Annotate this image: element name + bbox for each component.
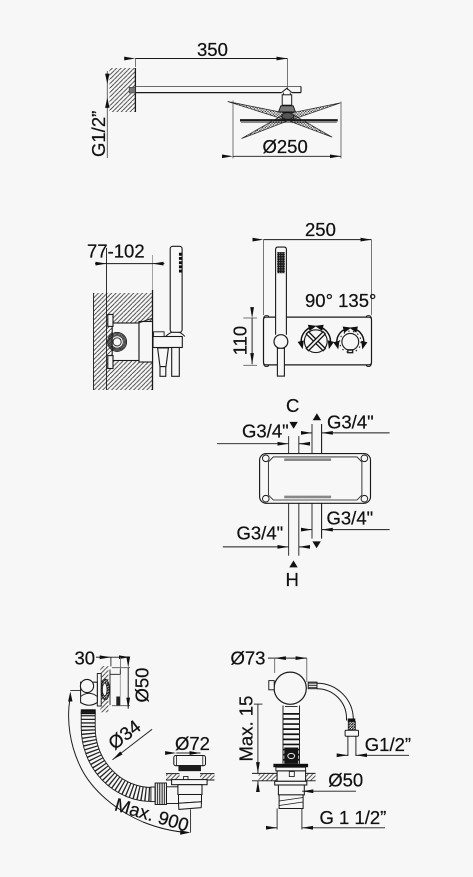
svg-text:110: 110: [230, 326, 251, 356]
svg-text:Ø250: Ø250: [263, 136, 308, 157]
svg-text:Ø50: Ø50: [328, 770, 363, 791]
svg-text:G 1 1/2”: G 1 1/2”: [320, 807, 387, 828]
svg-text:Max. 15: Max. 15: [236, 696, 257, 762]
svg-text:C: C: [286, 395, 299, 416]
svg-text:H: H: [286, 569, 299, 590]
svg-text:G3/4": G3/4": [237, 523, 284, 544]
svg-text:350: 350: [197, 39, 228, 60]
svg-text:G3/4": G3/4": [327, 508, 374, 529]
svg-text:Ø50: Ø50: [131, 668, 152, 703]
svg-text:G1/2”: G1/2”: [365, 734, 411, 755]
svg-text:250: 250: [305, 219, 336, 240]
svg-text:90° 135°: 90° 135°: [305, 290, 376, 311]
svg-text:G3/4": G3/4": [327, 412, 374, 433]
svg-text:G1/2”: G1/2”: [88, 111, 109, 157]
svg-text:Ø72: Ø72: [175, 733, 210, 754]
svg-text:G3/4": G3/4": [242, 421, 289, 442]
svg-text:Ø73: Ø73: [231, 648, 266, 669]
svg-text:77-102: 77-102: [87, 241, 145, 262]
svg-text:30: 30: [75, 648, 96, 669]
